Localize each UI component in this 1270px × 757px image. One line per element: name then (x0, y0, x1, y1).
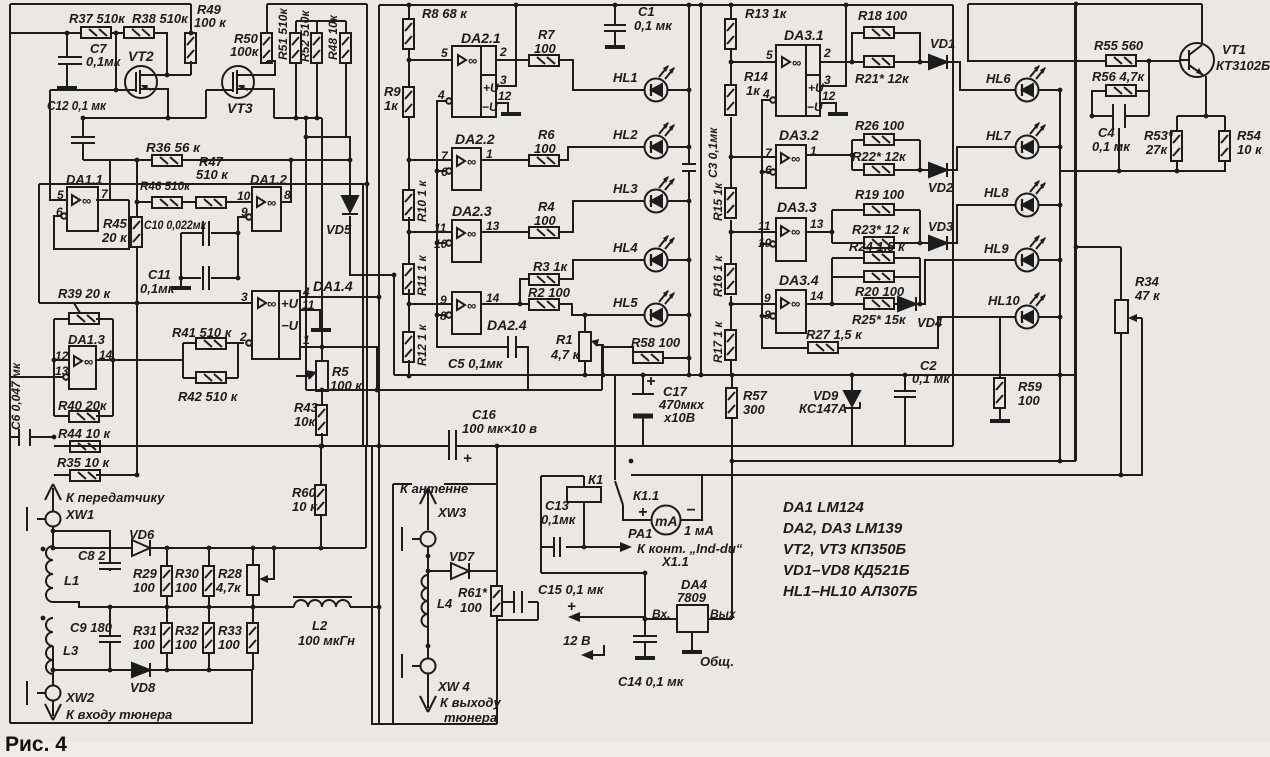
wire DA3.1 pin3 supply (820, 5, 846, 86)
capacitor C16 plates (449, 430, 456, 460)
svg-text:−: − (686, 502, 695, 519)
wire top rail 3 (968, 3, 1202, 5)
resistor R50 (261, 33, 272, 63)
svg-text:5: 5 (441, 46, 448, 60)
wire R51 bottom (295, 63, 297, 118)
svg-text:HL2: HL2 (613, 127, 638, 142)
svg-text:DA2.1: DA2.1 (461, 30, 501, 46)
svg-text:R38 510к: R38 510к (132, 11, 189, 26)
svg-text:R16 1 к: R16 1 к (711, 255, 725, 297)
resistor R61 (491, 586, 502, 616)
svg-text:R6: R6 (538, 127, 555, 142)
svg-text:100: 100 (534, 141, 556, 156)
svg-text:100: 100 (175, 637, 197, 652)
wire main rail y446 (57, 445, 953, 447)
resistor R57 (726, 388, 737, 418)
svg-text:10 к: 10 к (1237, 142, 1263, 157)
svg-text:VD3: VD3 (928, 219, 954, 234)
svg-text:6: 6 (441, 165, 448, 179)
wire R7 to HL1 (559, 60, 644, 90)
svg-text:R14: R14 (744, 69, 769, 84)
wire pin2 DA1.4 (238, 342, 244, 344)
wire x1076 supply drop (1075, 4, 1077, 461)
svg-text:К1: К1 (588, 472, 603, 487)
opamp DA2.1 with U pins (446, 46, 496, 117)
resistor R44 (70, 441, 100, 452)
svg-text:R45: R45 (103, 216, 128, 231)
svg-text:R41 510 к: R41 510 к (172, 325, 233, 340)
wire R18 R21 join (894, 33, 929, 62)
wire VT1 emitter (1205, 76, 1207, 116)
svg-text:0,1мк: 0,1мк (541, 512, 577, 527)
wire DA1.3 pin12 (54, 359, 69, 361)
svg-text:Х1.1: Х1.1 (661, 554, 689, 569)
wire R59 (1000, 317, 1015, 419)
wire DA2.1 pin3 supply (496, 5, 516, 86)
wire R18 branch (852, 33, 864, 62)
svg-text:1: 1 (810, 144, 817, 158)
opamp DA1.2 (246, 187, 281, 231)
resistor R15 (725, 188, 736, 218)
wire x1060 cathode bus (1059, 90, 1061, 461)
svg-text:R30: R30 (175, 566, 200, 581)
svg-text:L2: L2 (312, 618, 328, 633)
svg-text:VD2: VD2 (928, 180, 954, 195)
wire pin8 stub (437, 314, 446, 316)
wire R48 bottom (346, 63, 350, 137)
svg-text:R43: R43 (294, 400, 319, 415)
wire top rail 1b segment (267, 3, 367, 5)
wire 12V feed (580, 616, 645, 618)
svg-text:1: 1 (486, 147, 493, 161)
LED HL1 (645, 65, 676, 102)
wire R4 to HL3 (559, 201, 644, 232)
wire R35 row (54, 474, 137, 476)
relay K1 (567, 487, 601, 502)
svg-text:R24 1,5 к: R24 1,5 к (849, 239, 906, 254)
svg-text:R9: R9 (384, 84, 401, 99)
wire DA1.3 out to R41 pair (113, 343, 183, 360)
wire C2 stems (904, 375, 906, 446)
capacitor C13 (554, 537, 560, 557)
capacitor C11 (203, 266, 209, 290)
svg-text:2: 2 (239, 330, 247, 344)
wire VD7 row (428, 570, 497, 572)
wire pin7 DA1.1 (96, 199, 129, 201)
svg-text:6: 6 (765, 163, 772, 177)
wire VT3 drain (237, 61, 275, 75)
wire y573 to DA4 in (541, 573, 645, 619)
wire XW4 stem (402, 654, 420, 678)
wire left frame vertical (9, 4, 11, 723)
diode VD1 (929, 55, 947, 69)
resistor R32 (203, 623, 214, 653)
resistor R34 potentiometer (1115, 300, 1128, 333)
svg-text:+U: +U (281, 296, 299, 311)
svg-text:R26 100: R26 100 (855, 118, 905, 133)
svg-text:R11 1 к: R11 1 к (415, 255, 429, 296)
wire minus arrow (592, 645, 604, 655)
wire R29 R30 R28 stubs top (167, 548, 253, 566)
svg-text:11: 11 (434, 221, 447, 235)
svg-text:6: 6 (56, 205, 63, 219)
wire XW3 stem (402, 527, 420, 551)
wire L2 core bar (293, 596, 352, 598)
wire L3 column (52, 646, 54, 686)
inductor L4 (422, 575, 429, 627)
svg-text:R42 510 к: R42 510 к (178, 389, 239, 404)
wire x50 down to DA1.1 pin5 (50, 90, 67, 200)
wire R50 top corner (266, 4, 268, 33)
wire R37 R38 drop to gate (115, 33, 117, 90)
LED HL7 (1016, 122, 1047, 159)
wire DA2.1 pin12 gnd (496, 103, 508, 112)
resistor R11 (403, 264, 414, 294)
svg-text:8: 8 (764, 308, 771, 322)
wire R41 R42 pair (183, 343, 238, 378)
svg-text:R60: R60 (292, 485, 317, 500)
diode VD5 (342, 196, 358, 214)
wire rail y171 (1059, 170, 1226, 172)
opamp DA3.3 (770, 218, 806, 261)
svg-text:R58 100: R58 100 (631, 335, 681, 350)
junction dots top-left (65, 31, 70, 36)
resistor R54 (1219, 131, 1230, 161)
resistor R49 (185, 33, 196, 63)
svg-text:−U: −U (281, 318, 299, 333)
wire C13 row (541, 546, 584, 548)
svg-text:27к: 27к (1145, 142, 1168, 157)
svg-text:C1: C1 (638, 4, 655, 19)
resistor R1 potentiometer (579, 332, 591, 361)
wire HL right stubs (668, 90, 689, 315)
wire C9 stems (109, 607, 111, 670)
resistor R45 (131, 217, 142, 247)
svg-text:HL10: HL10 (988, 293, 1021, 308)
svg-text:14: 14 (486, 291, 500, 305)
capacitor C8 (99, 563, 121, 571)
wire L4 main vertical (427, 546, 429, 658)
LED HL5 (645, 290, 676, 327)
resistor R52 (311, 33, 322, 63)
svg-text:4: 4 (437, 88, 445, 102)
wire R51 R52 R48 top link (296, 21, 346, 33)
wire R19 R23 right join (894, 210, 929, 243)
wire x394 (393, 275, 395, 375)
wire VD4 to HL9 (916, 260, 1015, 304)
wire VT3 source (237, 89, 274, 118)
svg-text:∞: ∞ (791, 296, 800, 311)
wire VD6 row (53, 547, 366, 549)
svg-text:R21* 12к: R21* 12к (855, 71, 910, 86)
wire PA1 right loop (680, 475, 702, 520)
LED HL3 (645, 176, 676, 213)
capacitor C10 (203, 221, 209, 246)
wire R38 to VT2 drain (153, 33, 167, 75)
inductor L3 (46, 618, 53, 674)
svg-text:47 к: 47 к (1134, 288, 1161, 303)
wire DA3.4 out (806, 303, 832, 305)
svg-text:HL7: HL7 (986, 128, 1011, 143)
svg-text:HL8: HL8 (984, 185, 1009, 200)
svg-text:R55 560: R55 560 (1094, 38, 1144, 53)
wire C5 right to line B (516, 347, 528, 390)
wire R2 to HL5 (559, 304, 644, 315)
svg-text:C12 0,1 мк: C12 0,1 мк (47, 98, 107, 113)
svg-text:HL1–HL10 АЛ307Б: HL1–HL10 АЛ307Б (783, 583, 918, 600)
wire R46 R47 row (137, 201, 252, 203)
resistor R23 (864, 237, 894, 248)
svg-text:C10 0,022мк: C10 0,022мк (144, 218, 207, 232)
svg-text:XW3: XW3 (437, 505, 467, 520)
resistor R40 (69, 411, 99, 422)
resistor R33 (247, 623, 258, 653)
enclosure box XW3/XW4 (393, 446, 497, 724)
svg-text:3: 3 (500, 73, 507, 87)
capacitor C15 (514, 591, 522, 613)
wire source line y118 (83, 117, 206, 119)
regulator DA4 (677, 605, 708, 632)
wire R44 left (54, 445, 70, 447)
resistor R43 (316, 405, 327, 435)
svg-text:R56 4,7к: R56 4,7к (1092, 69, 1146, 84)
wire top rail 2 (379, 4, 953, 6)
svg-text:12: 12 (822, 89, 836, 103)
wire VD5 string top (306, 118, 350, 390)
svg-text:R61*: R61* (458, 585, 488, 600)
resistor R30 (203, 566, 214, 596)
svg-text:HL1: HL1 (613, 70, 638, 85)
wire pin9 DA2.4 (409, 303, 452, 305)
svg-text:8: 8 (440, 309, 447, 323)
svg-text:С8 2: С8 2 (78, 548, 106, 563)
svg-text:12 В: 12 В (563, 633, 590, 648)
wire pin9 DA3.4 (731, 303, 776, 305)
wire DA1.2 out up to R36 line (281, 160, 291, 202)
wire x322 inv input (321, 118, 323, 347)
opamp DA2.4 (446, 292, 481, 334)
svg-text:1 мА: 1 мА (684, 523, 714, 538)
wire DA1.1 feedback loop (54, 200, 129, 249)
wire DA3.3 out (806, 231, 832, 233)
transistor VT3 (222, 66, 254, 98)
wire R1 wiper (597, 345, 603, 375)
resistor R18 (864, 27, 894, 38)
svg-text:300: 300 (743, 402, 765, 417)
svg-text:DA1 LM124: DA1 LM124 (783, 499, 865, 516)
wire R56 loop right (1136, 61, 1149, 116)
svg-text:К антенне: К антенне (400, 481, 468, 496)
wire pin7 DA3.2 (731, 156, 776, 158)
svg-text:R15 1к: R15 1к (711, 182, 725, 221)
svg-text:∞: ∞ (792, 55, 801, 70)
wire bottom frame (10, 670, 252, 723)
capacitor C7 (58, 33, 82, 86)
wire R57 stems (731, 375, 733, 619)
wire DA4 in (645, 618, 677, 620)
capacitor C3 (682, 164, 696, 171)
svg-text:С9 180: С9 180 (70, 620, 113, 635)
LED HL8 (1016, 180, 1047, 217)
svg-text:4,7 к: 4,7 к (550, 347, 581, 362)
wire k-kont arrow line (584, 546, 620, 548)
svg-text:2: 2 (823, 46, 831, 60)
svg-text:КТ3102Б: КТ3102Б (1216, 58, 1270, 73)
svg-text:Вых: Вых (710, 607, 737, 621)
wire pin5 DA2.1 (409, 59, 452, 61)
wire XW3 arrow (427, 492, 429, 530)
wire R58 feed (602, 347, 633, 390)
dots VT1 section (1147, 59, 1152, 64)
svg-text:R2 100: R2 100 (528, 285, 571, 300)
wire C1 stem (614, 5, 616, 45)
wire VT2 gate line (50, 89, 136, 91)
capacitor C12 (71, 118, 95, 160)
wire DA2.3 out to R4 (481, 231, 529, 233)
svg-text:∞: ∞ (467, 226, 476, 241)
wire R60 stack (320, 446, 322, 548)
svg-text:1: 1 (303, 333, 310, 347)
wire C12 to R36 (83, 159, 152, 161)
inductor L2 (294, 600, 350, 607)
svg-text:0,1 мк: 0,1 мк (912, 371, 951, 386)
diode VD2 (929, 163, 947, 177)
svg-text:VD1–VD8 КД521Б: VD1–VD8 КД521Б (783, 562, 910, 579)
svg-text:13: 13 (55, 364, 69, 378)
svg-text:VD4: VD4 (917, 315, 943, 330)
diode VD4 (898, 297, 916, 311)
wire DA3.2 out (806, 154, 852, 156)
wire DA3.1 pin12 gnd (820, 103, 836, 112)
wire R31 R32 R33 stubs (167, 607, 253, 670)
svg-text:R51 510к: R51 510к (276, 8, 290, 60)
wire R24 R20 R25 left join (832, 258, 864, 304)
svg-text:100: 100 (175, 580, 197, 595)
svg-text:R29: R29 (133, 566, 158, 581)
svg-text:13: 13 (810, 217, 824, 231)
wire VT2 drain row (140, 61, 191, 75)
svg-text:R39 20 к: R39 20 к (58, 286, 112, 301)
resistor R12 (403, 332, 414, 362)
wire C4 row (1092, 115, 1149, 117)
svg-text:VD1: VD1 (930, 36, 955, 51)
svg-text:VD7: VD7 (449, 549, 475, 564)
LED HL4 (645, 235, 676, 272)
diode VD6 (132, 540, 150, 556)
resistor R7 (529, 55, 559, 66)
svg-text:R25* 15к: R25* 15к (852, 312, 907, 327)
svg-text:R33: R33 (218, 623, 243, 638)
svg-text:7809: 7809 (677, 590, 707, 605)
svg-text:100: 100 (1018, 393, 1040, 408)
resistor R2 (529, 299, 559, 310)
svg-text:∞: ∞ (467, 154, 476, 169)
wire L1 column (52, 526, 54, 546)
resistor R39 (69, 313, 99, 324)
diode VD7 (451, 563, 469, 579)
svg-text:R8 68 к: R8 68 к (422, 6, 468, 21)
resistor R58 (633, 352, 663, 363)
wire inv rail x437 (437, 101, 508, 347)
svg-text:4,7к: 4,7к (215, 580, 242, 595)
svg-text:0,1мк: 0,1мк (86, 54, 122, 69)
resistor R38 (124, 27, 154, 38)
wire R52 bottom (316, 63, 318, 118)
svg-text:R46 510к: R46 510к (140, 179, 191, 193)
wire line B y390 (306, 389, 602, 391)
svg-text:R10 1 к: R10 1 к (415, 180, 429, 222)
svg-text:R28: R28 (218, 566, 243, 581)
svg-text:510 к: 510 к (196, 167, 229, 182)
wire DA2.4 out to R2 (481, 303, 529, 305)
svg-text:Рис. 4: Рис. 4 (5, 733, 67, 756)
opamp DA1.1 (61, 187, 98, 231)
svg-text:∞: ∞ (84, 354, 93, 369)
svg-text:DA3.4: DA3.4 (779, 272, 819, 288)
wire top rail 1 (10, 3, 191, 5)
svg-text:HL9: HL9 (984, 241, 1009, 256)
svg-text:R3 1к: R3 1к (533, 259, 568, 274)
svg-text:11: 11 (758, 219, 771, 233)
resistor R31 (161, 623, 172, 653)
wire XW2 arrow (52, 700, 54, 716)
wire R34 wiper (1135, 317, 1142, 319)
svg-text:VT2, VT3 КП350Б: VT2, VT3 КП350Б (783, 541, 907, 558)
wire R40 row (54, 415, 113, 417)
svg-text:∞: ∞ (82, 193, 91, 208)
wire x701 rail (700, 5, 702, 375)
wire DA3.1 out (820, 61, 864, 63)
wire x372 drop (372, 446, 393, 724)
capacitor C5 (508, 336, 516, 358)
LED HL10 (1016, 292, 1047, 329)
svg-text:К входу тюнера: К входу тюнера (66, 707, 172, 722)
svg-text:0,1мк: 0,1мк (140, 281, 176, 296)
capacitor C4 (1113, 104, 1125, 128)
wire R19 R23 left join (832, 210, 864, 243)
wire pin10 stub (762, 243, 770, 245)
svg-text:+: + (567, 598, 576, 615)
svg-text:К передатчику: К передатчику (66, 490, 165, 505)
resistor R60 (315, 485, 326, 515)
resistor R42 (196, 372, 226, 383)
svg-text:9: 9 (440, 293, 447, 307)
wire R37-R38 link (111, 32, 124, 34)
svg-text:100 мкГн: 100 мкГн (298, 633, 355, 648)
svg-text:∞: ∞ (468, 53, 477, 68)
svg-text:DA3.2: DA3.2 (779, 127, 819, 143)
connector XW1 (46, 512, 61, 527)
svg-text:100: 100 (460, 600, 482, 615)
wire R5 wiper arrow (296, 375, 311, 377)
svg-text:C4: C4 (1098, 125, 1115, 140)
svg-text:R18 100: R18 100 (858, 8, 908, 23)
wire XW1 arrow (52, 488, 54, 512)
capacitor C9 (99, 636, 121, 642)
svg-text:100: 100 (218, 637, 240, 652)
svg-text:PA1: PA1 (628, 526, 652, 541)
svg-text:R59: R59 (1018, 379, 1043, 394)
wire R26 R22 right join (894, 140, 929, 170)
svg-text:К1.1: К1.1 (633, 488, 659, 503)
svg-text:100 к: 100 к (330, 378, 363, 393)
svg-text:∞: ∞ (791, 151, 800, 166)
dots DA2 column (407, 3, 412, 8)
svg-text:100: 100 (133, 580, 155, 595)
svg-text:10 к: 10 к (292, 499, 318, 514)
LED HL9 (1016, 235, 1047, 272)
wire C10 C11 ground stem (180, 233, 182, 286)
